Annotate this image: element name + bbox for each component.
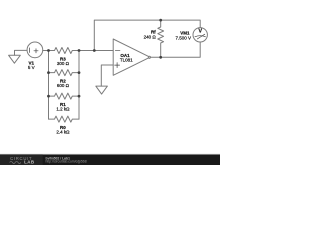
svg-text:TL081: TL081 bbox=[120, 58, 133, 63]
svg-text:2.4 kΩ: 2.4 kΩ bbox=[56, 130, 70, 135]
svg-text:300 Ω: 300 Ω bbox=[57, 61, 70, 66]
svg-text:5 V: 5 V bbox=[28, 65, 35, 70]
svg-text:240 Ω: 240 Ω bbox=[144, 35, 157, 40]
svg-text:Rf: Rf bbox=[151, 29, 156, 34]
svg-text:1.2 kΩ: 1.2 kΩ bbox=[56, 107, 70, 112]
svg-text:V: V bbox=[198, 29, 202, 35]
svg-text:http://circuitlab.com/c/jp568: http://circuitlab.com/c/jp568 bbox=[46, 160, 87, 164]
svg-text:600 Ω: 600 Ω bbox=[57, 83, 70, 88]
svg-text:7.500 V: 7.500 V bbox=[175, 36, 191, 41]
svg-text:LAB: LAB bbox=[24, 160, 34, 165]
